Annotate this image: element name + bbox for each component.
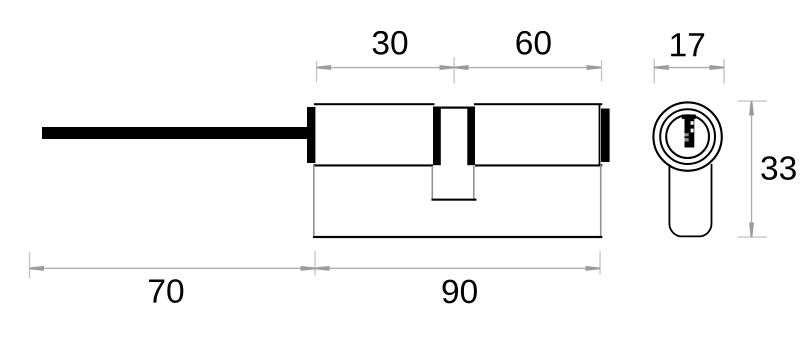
arrow dim60 right (587, 65, 602, 70)
dimension line 17 (654, 67, 724, 68)
cam lobe right edge (473, 166, 475, 199)
extension line for dim 90 right (599, 251, 600, 275)
keyhole notch right 2 (691, 129, 694, 133)
keyhole notch left 2 (685, 138, 689, 141)
keyhole notch right 1 (691, 121, 694, 125)
dimension line 33 (751, 101, 752, 237)
extension tick for dim 33 top (738, 100, 767, 101)
arrow dim33 bottom (749, 223, 754, 238)
cylinder barrel bottom line left half (313, 164, 433, 166)
arrow dim33 top (749, 101, 754, 116)
front view outer circle (653, 102, 721, 170)
housing body left edge (313, 165, 315, 236)
dim text 90 (443, 280, 477, 304)
dimension line 30 (317, 67, 455, 68)
dim text 60 (516, 31, 550, 55)
arrow dim17 left (654, 65, 669, 70)
arrow dim90 left (315, 266, 330, 271)
dimension line 70 (30, 268, 316, 269)
cam slot top line (433, 107, 475, 109)
keyhole stem (685, 115, 695, 148)
dim text 70 (149, 279, 183, 303)
arrow dim70 left (30, 266, 45, 271)
cylinder barrel right edge (599, 104, 601, 167)
keyhole notch left 1 (685, 133, 689, 136)
dim text 17 (671, 33, 704, 56)
arrow dim90 right (586, 266, 601, 271)
extension line for dim 17 left (654, 59, 655, 84)
arrow dim30 right (440, 65, 455, 70)
front view inner circle (666, 115, 709, 158)
arrow dim70 right (301, 266, 316, 271)
cam lobe bottom line (432, 199, 477, 201)
extension tick for dim 33 bottom (738, 236, 767, 237)
cam slot right bar (467, 107, 475, 166)
keyhole head (682, 115, 696, 119)
extension line for dim 30/60 middle (454, 57, 455, 84)
dimension line 90 (315, 268, 600, 269)
housing body bottom line (313, 236, 602, 238)
arrow dim30 left (317, 65, 332, 70)
housing body right edge (600, 165, 602, 236)
key rod (42, 127, 308, 139)
cylinder barrel top line left half (314, 103, 435, 105)
cylinder barrel bottom line right half (475, 164, 602, 166)
extension line for dim 60 right (601, 60, 602, 82)
extension line for dim 70/90 middle (314, 251, 315, 276)
cam slot left bar (433, 107, 441, 166)
right end cap (601, 109, 610, 163)
front view middle circle (660, 109, 715, 164)
cam lobe left edge (432, 166, 434, 199)
cylinder barrel top line right half (474, 103, 602, 105)
front view profile body (669, 164, 711, 237)
dim text 33 (761, 156, 796, 180)
arrow dim17 right (710, 65, 725, 70)
left end cap (307, 107, 315, 163)
extension line for dim 30 left (316, 61, 317, 82)
arrow dim60 left (454, 65, 469, 70)
dim text 30 (373, 31, 408, 55)
extension line for dim 17 right (723, 59, 724, 84)
dimension line 60 (454, 67, 601, 68)
extension line for dim 70 left (29, 252, 30, 279)
